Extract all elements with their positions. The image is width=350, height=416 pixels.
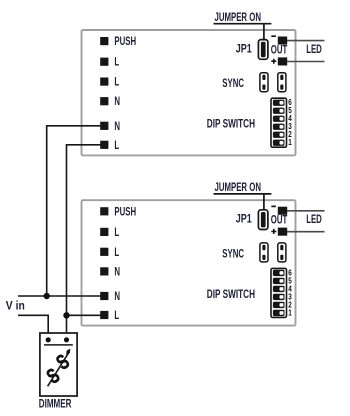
terminal L (pin 3) of U1 (100, 76, 119, 89)
svg-text:JP1: JP1 (236, 214, 252, 226)
plus sign of OUT (U1) (271, 59, 276, 64)
jumper-on underline (U2) (214, 193, 272, 195)
wire from JUMPER ON label to JP1 (U2) (263, 194, 265, 210)
minus sign of OUT (U2) (271, 205, 276, 207)
jumper-on underline (U1) (214, 23, 272, 25)
wire from U1 terminal L (pin6) down to dimmer output node (67, 145, 103, 340)
dimmer input terminal (46, 337, 51, 342)
svg-text:V in: V in (6, 300, 25, 313)
terminal N (pin 5) of U1 (100, 120, 120, 133)
dimmer phase-cut symbol arrow (48, 349, 71, 387)
wire from U1 terminal N (pin5) down the left side (47, 126, 102, 296)
terminal L (pin 6) of U1 (100, 139, 119, 152)
SYNC connector 1 (U2) (260, 243, 268, 262)
DIP switch block (U1) (271, 98, 287, 147)
V in neutral wire to U2 terminal N (pin5) (18, 295, 102, 297)
terminal PUSH (pin 1) of U2 (100, 206, 136, 219)
svg-text:OUT: OUT (271, 214, 288, 227)
dimmer phase-cut symbol S curves (42, 349, 74, 389)
svg-text:SYNC: SYNC (222, 248, 244, 261)
plus sign of OUT (U2) (271, 229, 276, 234)
terminal N (pin 5) of U2 (100, 291, 120, 304)
svg-text:PUSH: PUSH (114, 36, 136, 49)
svg-text:PUSH: PUSH (114, 206, 136, 219)
SYNC connector 2 (U2) (278, 243, 286, 262)
LED output wire + (U2) (287, 231, 325, 233)
jumper JP1 (U2) (258, 210, 268, 230)
svg-text:L: L (114, 226, 119, 239)
minus sign of OUT (U1) (271, 35, 276, 37)
SYNC connector 2 (U1) (278, 73, 286, 92)
svg-text:L: L (114, 56, 119, 69)
terminal N (pin 4) of U1 (100, 96, 120, 109)
SYNC connector 1 (U1) (260, 73, 268, 92)
LED output wire + (U1) (287, 61, 325, 63)
svg-text:JUMPER ON: JUMPER ON (215, 12, 261, 25)
LED driver unit U2 box (82, 200, 296, 325)
svg-text:DIP SWITCH: DIP SWITCH (207, 289, 255, 302)
terminal L (pin 6) of U2 (100, 310, 119, 323)
DIP switch block (U2) (271, 268, 287, 317)
LED output wire - (U2) (287, 210, 325, 212)
svg-text:L: L (114, 310, 119, 323)
terminal N (pin 4) of U2 (100, 266, 120, 279)
LED output wire - (U1) (287, 40, 325, 42)
LED output terminal - (U1) (278, 37, 287, 45)
wire from dimmer output node to U2 terminal L (pin6) (67, 314, 103, 316)
dimmer output terminal (64, 337, 69, 342)
svg-text:N: N (114, 266, 120, 279)
junction of neutral wires (44, 293, 50, 299)
svg-text:L: L (114, 139, 119, 152)
LED output terminal - (U2) (278, 207, 287, 215)
svg-text:N: N (114, 120, 120, 133)
svg-text:1: 1 (288, 137, 292, 147)
terminal L (pin 2) of U2 (100, 226, 119, 239)
dimmer box (40, 333, 77, 396)
svg-text:OUT: OUT (271, 44, 288, 57)
svg-text:LED: LED (306, 44, 322, 57)
svg-text:LED: LED (306, 214, 322, 227)
svg-text:L: L (114, 76, 119, 89)
jumper JP1 (U1) (258, 40, 268, 60)
LED output terminal + (U1) (278, 57, 287, 65)
svg-text:DIMMER: DIMMER (39, 398, 72, 411)
terminal L (pin 3) of U2 (100, 246, 119, 259)
svg-text:L: L (114, 246, 119, 259)
terminal PUSH (pin 1) of U1 (100, 36, 136, 49)
svg-text:1: 1 (288, 308, 292, 318)
svg-text:SYNC: SYNC (222, 78, 244, 91)
dimmer terminal separator line (44, 344, 73, 346)
terminal L (pin 2) of U1 (100, 56, 119, 69)
svg-text:JP1: JP1 (236, 44, 252, 56)
svg-text:DIP SWITCH: DIP SWITCH (207, 118, 255, 131)
svg-text:N: N (114, 96, 120, 109)
wire from JUMPER ON label to JP1 (U1) (263, 24, 265, 40)
junction of dimmed live wires (63, 312, 69, 318)
V in live wire down to dimmer input (18, 315, 48, 340)
svg-text:JUMPER ON: JUMPER ON (215, 182, 261, 195)
LED driver unit U1 box (82, 30, 296, 155)
svg-text:N: N (114, 291, 120, 304)
LED output terminal + (U2) (278, 228, 287, 236)
